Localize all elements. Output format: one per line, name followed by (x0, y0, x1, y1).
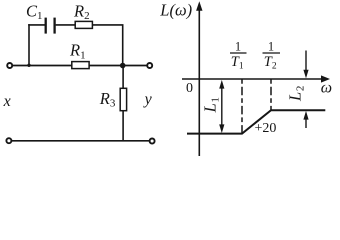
resistor R3 (120, 88, 126, 110)
dimension arrow L2 down head (303, 70, 308, 79)
wire R3 to bottom rail (122, 110, 124, 141)
asymptote curve (187, 110, 325, 133)
wire top-left corner to C1 (28, 24, 45, 26)
terminal node x (top-left open circle) (7, 63, 12, 68)
svg-text:ω: ω (321, 79, 332, 96)
dimension arrow L1 shaft (221, 84, 223, 129)
dimension arrow L2 lower segment (305, 117, 307, 128)
svg-text:0: 0 (186, 81, 193, 96)
svg-text:+20: +20 (255, 121, 277, 136)
wire C1 to R2 (56, 24, 76, 26)
wire bottom rail (12, 140, 149, 142)
plot vertical axis arrowhead (196, 1, 202, 11)
fraction 1/T1 bar (230, 52, 247, 54)
svg-text:1: 1 (235, 40, 241, 54)
dimension arrow L2 up head (303, 111, 308, 120)
resistor R2 (75, 21, 92, 28)
plot horizontal axis arrowhead (321, 75, 330, 82)
wire main horizontal right segment (89, 65, 147, 67)
wire left vertical of C1/R2 branch (28, 24, 30, 65)
svg-text:x: x (3, 93, 11, 110)
wire junction down to R3 (122, 66, 124, 89)
junction (small) at left branch foot (27, 64, 30, 67)
svg-text:y: y (143, 91, 153, 108)
terminal bottom-left open circle (6, 138, 11, 143)
terminal bottom-right open circle (150, 139, 155, 144)
wire R2 to corner and down to junction (92, 25, 122, 64)
dashed line at 1/T1 (241, 79, 243, 134)
plot vertical axis (198, 8, 200, 156)
dimension arrow L1 down head (219, 124, 224, 133)
dimension arrow L2 upper segment (305, 51, 307, 73)
svg-text:L(ω): L(ω) (159, 0, 192, 19)
junction dot on main wire (120, 63, 126, 69)
svg-text:1: 1 (268, 40, 274, 54)
plot horizontal axis (182, 78, 324, 80)
capacitor C1 (46, 18, 55, 34)
dimension arrow L1 up head (219, 80, 224, 89)
resistor R1 (72, 62, 89, 69)
wire main horizontal left segment (13, 65, 73, 67)
fraction 1/T2 bar (263, 52, 281, 54)
terminal node y (top-right open circle) (147, 63, 152, 68)
dashed line at 1/T2 (270, 79, 272, 110)
